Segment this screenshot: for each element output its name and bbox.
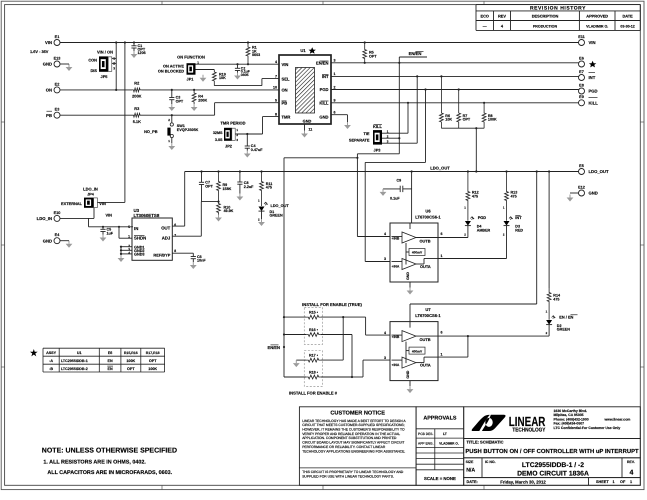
svg-text:9: 9 <box>334 99 336 103</box>
svg-text:1: 1 <box>334 72 336 76</box>
svg-text:TECHNOLOGY: TECHNOLOGY <box>512 427 545 433</box>
svg-text:OPT: OPT <box>127 367 135 371</box>
svg-text:E12: E12 <box>578 185 585 189</box>
svg-text:0603: 0603 <box>252 53 260 57</box>
svg-text:+INA: +INA <box>392 264 400 268</box>
svg-text:ON: ON <box>46 88 52 93</box>
svg-text:VLADIMIR O.: VLADIMIR O. <box>586 24 608 28</box>
svg-text:GND: GND <box>406 370 410 378</box>
svg-text:03-30-12: 03-30-12 <box>620 24 634 28</box>
svg-text:EVQPJS05K: EVQPJS05K <box>177 128 199 132</box>
svg-text:INSTALL FOR ENABLE (TRUE): INSTALL FOR ENABLE (TRUE) <box>302 302 362 307</box>
svg-text:SHDN: SHDN <box>134 236 146 241</box>
svg-text:E1: E1 <box>55 35 60 39</box>
svg-text:10nF: 10nF <box>197 259 206 263</box>
svg-text:IN: IN <box>134 226 138 231</box>
svg-text:LTC2955IDDB-1 / -2: LTC2955IDDB-1 / -2 <box>522 462 584 469</box>
svg-text:DEMO CIRCUIT 1836A: DEMO CIRCUIT 1836A <box>517 471 589 478</box>
svg-text:475: 475 <box>553 297 559 301</box>
svg-text:GND3: GND3 <box>134 253 145 257</box>
svg-text:GND: GND <box>319 114 328 119</box>
svg-text:—: — <box>483 23 487 28</box>
svg-text:EN / EN: EN / EN <box>559 314 573 319</box>
svg-text:R18 •: R18 • <box>309 371 319 375</box>
svg-text:GND: GND <box>43 238 52 243</box>
svg-text:1.6V - 36V: 1.6V - 36V <box>30 49 49 54</box>
svg-text:TECHNOLOGY APPLICATIONS ENGINE: TECHNOLOGY APPLICATIONS ENGINEERING FOR … <box>302 449 405 453</box>
svg-text:APPROVED: APPROVED <box>586 14 608 19</box>
svg-text:VIN: VIN <box>589 40 596 45</box>
svg-text:5: 5 <box>275 99 277 103</box>
svg-text:REV.: REV. <box>627 460 635 464</box>
svg-text:R3: R3 <box>134 106 140 111</box>
svg-text:VIN: VIN <box>282 62 289 67</box>
svg-text:1uF: 1uF <box>107 231 114 235</box>
svg-text:R15,R16: R15,R16 <box>124 351 138 355</box>
svg-text:4: 4 <box>384 232 386 236</box>
svg-text:NO_PB: NO_PB <box>144 129 158 134</box>
svg-text:U1: U1 <box>300 48 306 53</box>
svg-text:E9: E9 <box>579 95 584 99</box>
svg-text:10: 10 <box>273 86 277 90</box>
svg-text:1: 1 <box>613 480 615 484</box>
svg-text:SCALE = NONE: SCALE = NONE <box>424 476 456 481</box>
svg-text:U7: U7 <box>425 307 431 312</box>
svg-text:0.1uF: 0.1uF <box>390 196 400 200</box>
svg-text:400mV: 400mV <box>412 251 423 255</box>
svg-text:OUTB: OUTB <box>420 238 431 243</box>
svg-text:3: 3 <box>113 66 115 70</box>
svg-text:INT: INT <box>515 215 522 220</box>
svg-text:6: 6 <box>174 223 176 227</box>
svg-text:10K: 10K <box>445 118 452 122</box>
svg-text:ADJ: ADJ <box>162 236 171 241</box>
svg-text:100K: 100K <box>488 118 497 122</box>
svg-text:INSTALL FOR ENABLE #: INSTALL FOR ENABLE # <box>289 391 338 396</box>
svg-text:100K: 100K <box>148 367 157 371</box>
svg-text:475: 475 <box>511 194 517 198</box>
svg-text:LT6700CS6-1: LT6700CS6-1 <box>415 313 441 318</box>
svg-text:RED: RED <box>515 228 523 232</box>
svg-text:KILL: KILL <box>589 100 599 105</box>
svg-text:R16 •: R16 • <box>309 328 319 332</box>
svg-text:APP ENG.: APP ENG. <box>418 441 434 445</box>
svg-text:475: 475 <box>266 186 272 190</box>
svg-text:LTC Confidential-For Customer: LTC Confidential-For Customer Use Only <box>554 426 621 430</box>
svg-text:GREEN: GREEN <box>270 214 283 218</box>
svg-text:LTC2955IDDB-1: LTC2955IDDB-1 <box>61 359 88 363</box>
svg-text:49.9K: 49.9K <box>224 209 234 213</box>
svg-text:8: 8 <box>275 112 277 116</box>
svg-text:IC NO.: IC NO. <box>485 460 496 464</box>
svg-text:OPT: OPT <box>369 55 377 59</box>
svg-text:E3: E3 <box>55 108 60 112</box>
svg-text:AMBER: AMBER <box>477 228 491 232</box>
svg-text:REVISION HISTORY: REVISION HISTORY <box>530 5 586 11</box>
svg-text:7: 7 <box>174 233 176 237</box>
svg-text:VIN: VIN <box>106 213 113 218</box>
svg-text:N/A: N/A <box>466 468 475 474</box>
svg-text:JP2: JP2 <box>225 143 233 148</box>
svg-text:6: 6 <box>334 111 336 115</box>
svg-text:SEL: SEL <box>282 76 290 81</box>
svg-text:Friday, March 30, 2012: Friday, March 30, 2012 <box>500 479 546 484</box>
svg-text:EN: EN <box>108 367 113 371</box>
svg-text:PB: PB <box>46 113 52 118</box>
svg-text:LDO_OUT: LDO_OUT <box>589 169 609 174</box>
svg-text:8: 8 <box>174 249 176 253</box>
svg-text:CUSTOMER NOTICE: CUSTOMER NOTICE <box>330 411 385 417</box>
svg-text:U6: U6 <box>425 208 431 213</box>
svg-text:-B: -B <box>49 367 53 371</box>
svg-text:DESCRIPTION: DESCRIPTION <box>532 14 559 19</box>
svg-text:E13: E13 <box>54 56 61 60</box>
svg-text:E6: E6 <box>579 56 584 60</box>
svg-text:E11: E11 <box>578 35 585 39</box>
svg-text:E6: E6 <box>108 351 113 355</box>
svg-text:200K: 200K <box>198 99 207 103</box>
svg-text:www.linear.com: www.linear.com <box>604 417 631 421</box>
svg-text:3: 3 <box>334 59 336 63</box>
svg-text:C9: C9 <box>397 178 402 182</box>
svg-text:TMR PERIOD: TMR PERIOD <box>220 121 245 126</box>
svg-text:4: 4 <box>128 251 130 255</box>
svg-text:OF: OF <box>620 480 626 484</box>
svg-text:R17 •: R17 • <box>309 354 319 358</box>
svg-text:3: 3 <box>384 356 386 360</box>
svg-text:THIS CIRCUIT IS PROPRIETARY TO: THIS CIRCUIT IS PROPRIETARY TO LINEAR TE… <box>302 470 404 474</box>
svg-text:REV: REV <box>498 14 506 19</box>
svg-text:+INB: +INB <box>392 335 400 339</box>
svg-text:6: 6 <box>441 331 443 335</box>
svg-text:SUPPLIED FOR USE WITH LINEAR T: SUPPLIED FOR USE WITH LINEAR TECHNOLOGY … <box>302 475 394 479</box>
svg-text:ASSY: ASSY <box>46 351 57 355</box>
svg-text:TIE: TIE <box>363 131 369 136</box>
svg-text:DATE:: DATE: <box>467 480 478 484</box>
svg-text:LDO_OUT: LDO_OUT <box>430 166 450 171</box>
svg-text:E10: E10 <box>54 211 61 215</box>
svg-text:1: 1 <box>441 254 443 258</box>
svg-text:R17,R18: R17,R18 <box>146 351 160 355</box>
svg-text:LDO_IN: LDO_IN <box>83 187 98 192</box>
svg-text:1: 1 <box>441 353 443 357</box>
svg-text:INT: INT <box>589 75 596 80</box>
svg-text:R15 •: R15 • <box>309 311 319 315</box>
svg-text:ON: ON <box>282 88 288 93</box>
svg-text:PGD: PGD <box>589 89 598 94</box>
svg-text:JP5: JP5 <box>101 74 109 79</box>
svg-text:GND: GND <box>406 272 410 280</box>
svg-text:1: 1 <box>630 480 632 484</box>
svg-text:4: 4 <box>384 331 386 335</box>
svg-text:158K: 158K <box>223 187 232 191</box>
svg-text:1206: 1206 <box>138 51 146 55</box>
svg-text:SEPARATE: SEPARATE <box>349 138 370 143</box>
svg-text:DATE: DATE <box>622 14 633 19</box>
svg-text:PGD: PGD <box>320 87 329 92</box>
svg-text:OPT: OPT <box>205 185 213 189</box>
svg-text:400mV: 400mV <box>412 349 423 353</box>
svg-text:10K: 10K <box>219 76 226 80</box>
svg-text:+INB: +INB <box>392 236 400 240</box>
svg-text:E7: E7 <box>579 70 584 74</box>
svg-text:2: 2 <box>334 85 336 89</box>
svg-text:OUTB: OUTB <box>420 337 431 342</box>
svg-text:200K: 200K <box>132 94 141 99</box>
svg-text:ON FUNCTION: ON FUNCTION <box>177 55 205 60</box>
svg-text:3: 3 <box>384 257 386 261</box>
svg-text:3.0S: 3.0S <box>215 138 223 142</box>
svg-text:0805: 0805 <box>241 73 249 77</box>
svg-text:JP3: JP3 <box>374 148 382 153</box>
svg-text:TMR: TMR <box>282 114 291 119</box>
svg-text:EN/EN: EN/EN <box>267 345 280 350</box>
svg-text:ALL CAPACITORS ARE IN MICROFAR: ALL CAPACITORS ARE IN MICROFARADS, 0603. <box>47 470 172 476</box>
svg-text:OUTA: OUTA <box>420 264 431 269</box>
svg-text:7: 7 <box>275 74 277 78</box>
svg-text:-A: -A <box>49 359 53 363</box>
svg-text:LTC2955IDDB-2: LTC2955IDDB-2 <box>61 367 88 371</box>
svg-text:REF/BYP: REF/BYP <box>153 252 170 257</box>
svg-text:LDO_IN: LDO_IN <box>37 216 52 221</box>
svg-text:5.1K: 5.1K <box>133 119 141 124</box>
svg-text:GREEN: GREEN <box>557 328 570 332</box>
svg-text:0.47uF: 0.47uF <box>251 148 263 152</box>
svg-text:GND: GND <box>589 191 598 196</box>
svg-text:GND: GND <box>303 118 312 123</box>
svg-text:APPROVALS: APPROVALS <box>423 415 457 421</box>
svg-text:JP4: JP4 <box>87 192 95 196</box>
svg-text:ECO: ECO <box>480 14 488 19</box>
svg-text:VLADIMIR O.: VLADIMIR O. <box>439 441 459 445</box>
svg-text:CON: CON <box>88 58 97 63</box>
svg-text:11: 11 <box>309 127 313 131</box>
svg-text:E8: E8 <box>579 83 584 87</box>
svg-text:PGD: PGD <box>478 215 487 220</box>
svg-text:ON BLOCKED: ON BLOCKED <box>158 69 184 74</box>
svg-text:PRODUCTION: PRODUCTION <box>533 24 558 28</box>
svg-text:OPT: OPT <box>149 359 157 363</box>
svg-text:GND: GND <box>43 62 52 67</box>
svg-text:2.2uF: 2.2uF <box>244 185 254 189</box>
svg-text:VIN / ON: VIN / ON <box>97 49 113 54</box>
svg-text:LT6700CS6-1: LT6700CS6-1 <box>415 214 441 219</box>
svg-text:+INA: +INA <box>392 363 400 367</box>
svg-text:OPT: OPT <box>463 118 471 122</box>
svg-text:LT3060ETS8: LT3060ETS8 <box>134 213 160 218</box>
svg-text:U1: U1 <box>77 351 82 355</box>
svg-text:475: 475 <box>472 194 478 198</box>
svg-text:OUTA: OUTA <box>420 362 431 367</box>
svg-text:100K: 100K <box>126 359 135 363</box>
svg-text:1. ALL RESISTORS ARE IN OHMS,: 1. ALL RESISTORS ARE IN OHMS, 0402. <box>43 460 146 466</box>
svg-text:PUSH BUTTON ON / OFF CONTROLLE: PUSH BUTTON ON / OFF CONTROLLER WITH uP … <box>465 448 639 455</box>
svg-text:TITLE: SCHEMATIC: TITLE: SCHEMATIC <box>467 439 504 444</box>
svg-text:SHEET: SHEET <box>596 480 609 484</box>
svg-text:NOTE: UNLESS OTHERWISE SPECIFI: NOTE: UNLESS OTHERWISE SPECIFIED <box>42 447 177 454</box>
svg-text:VIN: VIN <box>45 40 52 45</box>
svg-text:OUT: OUT <box>161 225 170 230</box>
svg-text:EN: EN <box>108 359 113 363</box>
svg-text:OPT: OPT <box>176 100 184 104</box>
svg-text:E2: E2 <box>55 82 60 86</box>
svg-text:4: 4 <box>630 470 634 477</box>
svg-text:LDO_OUT: LDO_OUT <box>271 204 290 208</box>
svg-text:SIZE: SIZE <box>466 460 474 464</box>
svg-text:E5: E5 <box>579 164 584 168</box>
svg-text:EXTERNAL: EXTERNAL <box>61 201 83 206</box>
svg-text:PCB DES.: PCB DES. <box>418 432 433 436</box>
svg-text:32MS: 32MS <box>213 131 223 135</box>
svg-text:R2: R2 <box>134 81 140 86</box>
svg-text:6: 6 <box>441 232 443 236</box>
svg-text:DIS: DIS <box>91 68 98 73</box>
svg-text:4: 4 <box>275 60 277 64</box>
svg-text:JP1: JP1 <box>187 76 195 81</box>
